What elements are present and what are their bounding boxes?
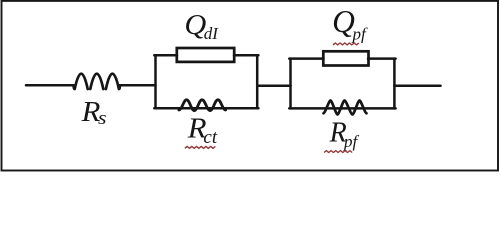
wire: block 2 bottom rail [289,107,395,110]
svg-text:pf: pf [352,24,369,43]
svg-text:dI: dI [204,24,220,43]
wire: block 1 right vertical [256,55,259,108]
wire: block 2 left vertical [289,59,292,109]
wire: block 1 top rail [154,54,258,57]
label Q_dI [184,10,219,43]
label R_ct [185,112,218,148]
wire W2 R_s to block 1 [120,85,156,88]
svg-text:ct: ct [203,127,217,148]
resistor R_pf [324,101,367,115]
wire: block 1 left vertical [154,55,157,108]
wire W3 block 1 to block 2 [257,84,290,87]
svg-text:s: s [98,108,107,128]
svg-text:pf: pf [343,132,360,151]
label Q_pf [332,4,368,45]
CPE Q_pf box [323,51,368,65]
label R_pf [324,118,360,153]
wire: block 2 top rail [289,57,395,60]
CPE Q_dI box [177,48,234,62]
wire: block 1 bottom rail [154,107,258,110]
wire W1 left lead [26,85,74,88]
wire: block 2 right vertical [393,59,396,109]
resistor R_s [75,74,88,89]
wire W4 right lead [394,85,440,88]
label R_s [81,96,107,129]
resistor R_ct [179,100,226,111]
